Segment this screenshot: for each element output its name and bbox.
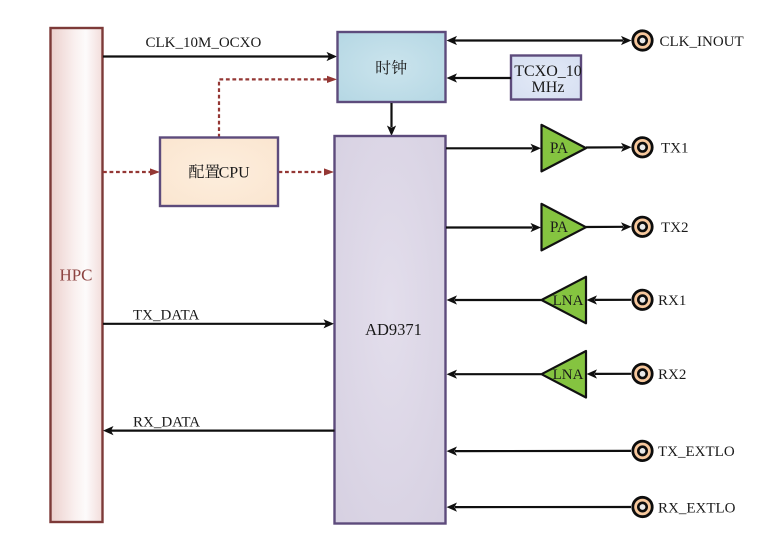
wire clock to CLK_INOUT (double arrow) [447, 36, 632, 45]
amplifier LNA (RX1) [542, 277, 587, 324]
block HPC [51, 28, 103, 522]
amplifier PA (TX1) [542, 125, 587, 172]
connector CLK_INOUT [633, 31, 652, 50]
wire RX2 connector to LNA [587, 369, 632, 378]
svg-text:MHz: MHz [532, 79, 565, 96]
amplifier LNA (RX2) [542, 351, 587, 398]
dashed wire: 配置CPU to clock [219, 76, 337, 138]
svg-text:HPC: HPC [59, 266, 92, 285]
wire PA to TX1 connector [586, 143, 632, 152]
svg-text:TX_EXTLO: TX_EXTLO [658, 444, 735, 460]
dashed wire: HPC to 配置CPU [103, 168, 160, 175]
wire TX_DATA: HPC to AD9371 [103, 319, 334, 328]
wire PA to TX2 connector [586, 222, 632, 231]
svg-text:CLK_10M_OCXO: CLK_10M_OCXO [146, 35, 262, 51]
connector RX2 [633, 364, 652, 383]
svg-text:AD9371: AD9371 [365, 320, 422, 339]
dashed wire: 配置CPU to AD9371 [279, 168, 335, 175]
svg-text:TX1: TX1 [661, 141, 689, 157]
svg-text:TX2: TX2 [661, 220, 689, 236]
connector RX_EXTLO [633, 497, 652, 516]
block 配置CPU [160, 138, 278, 207]
wire RX_DATA: AD9371 to HPC [103, 426, 335, 435]
wire RX1 connector to LNA [587, 295, 632, 304]
connector TX2 [633, 217, 652, 236]
svg-text:LNA: LNA [553, 293, 584, 309]
wire clock to AD9371 [387, 103, 396, 136]
connector RX1 [633, 290, 652, 309]
svg-text:TX_DATA: TX_DATA [133, 307, 199, 323]
svg-text:PA: PA [550, 140, 568, 157]
wire LNA to AD9371 (RX1) [447, 295, 542, 304]
wire LNA to AD9371 (RX2) [447, 370, 542, 379]
block clock (时钟) [338, 32, 446, 102]
svg-text:RX1: RX1 [658, 293, 686, 309]
svg-text:TCXO_10: TCXO_10 [514, 63, 582, 80]
wire AD9371 to PA (TX2) [446, 223, 541, 232]
svg-text:RX_EXTLO: RX_EXTLO [658, 500, 736, 516]
svg-text:RX2: RX2 [658, 367, 686, 383]
svg-text:LNA: LNA [553, 367, 584, 383]
wire CLK_10M_OCXO: HPC to clock [103, 52, 337, 61]
amplifier PA (TX2) [542, 204, 587, 251]
block TCXO_10MHz [511, 56, 582, 100]
svg-text:PA: PA [550, 219, 568, 236]
wire RX_EXTLO connector to AD9371 [447, 503, 632, 512]
block AD9371 [335, 136, 446, 524]
svg-text:RX_DATA: RX_DATA [133, 414, 200, 430]
connector TX1 [633, 138, 652, 157]
wire TX_EXTLO connector to AD9371 [447, 447, 632, 456]
connector TX_EXTLO [633, 441, 652, 460]
wire TCXO to clock [447, 73, 512, 82]
svg-text:CLK_INOUT: CLK_INOUT [660, 34, 744, 50]
svg-text:CPU: CPU [219, 165, 251, 182]
wire AD9371 to PA (TX1) [446, 144, 541, 153]
